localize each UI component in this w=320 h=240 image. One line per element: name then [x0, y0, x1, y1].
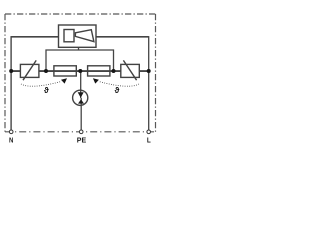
junction dot left wire	[9, 69, 13, 73]
wire release bracket	[46, 50, 114, 71]
enclosure boundary bottom	[5, 131, 156, 133]
thermal release arrow left (dotted arc)	[21, 78, 67, 86]
junction dot right bracket	[112, 69, 116, 73]
enclosure boundary right	[155, 14, 157, 132]
junction dot left bracket	[44, 69, 48, 73]
terminal PE	[79, 130, 83, 134]
junction dot right wire	[147, 69, 151, 73]
thermal disconnector F3 (right fuse box)	[88, 66, 110, 76]
thermal disconnector F2 (left fuse box)	[54, 66, 76, 76]
junction dot center	[78, 69, 82, 73]
wire left vertical N	[10, 36, 12, 130]
terminal L	[147, 130, 151, 134]
wire center vertical GDT upper	[80, 71, 82, 98]
enclosure boundary left	[4, 14, 6, 132]
varistor RV2 (right)	[121, 60, 140, 80]
wire right vertical L	[148, 36, 150, 130]
wire top horizontal N-L	[11, 36, 149, 38]
enclosure boundary (dash-dot) top	[5, 13, 156, 15]
gas discharge tube (N-PE spark gap)	[73, 90, 88, 105]
svg-text:ϑ: ϑ	[115, 86, 120, 95]
svg-text:N: N	[9, 135, 14, 144]
svg-text:ϑ: ϑ	[44, 86, 49, 95]
thermal release arrow right (dotted arc)	[93, 78, 139, 86]
varistor RV1 (left)	[20, 60, 39, 80]
horn electrode	[75, 30, 94, 42]
wire stub spark-gap box to bracket	[78, 47, 80, 50]
svg-text:L: L	[147, 135, 151, 144]
wire mid row	[11, 70, 149, 72]
spark gap unit F1 (box)	[59, 25, 97, 47]
terminal N	[9, 130, 13, 134]
svg-text:PE: PE	[77, 135, 86, 144]
wire center vertical GDT to PE	[80, 98, 82, 130]
